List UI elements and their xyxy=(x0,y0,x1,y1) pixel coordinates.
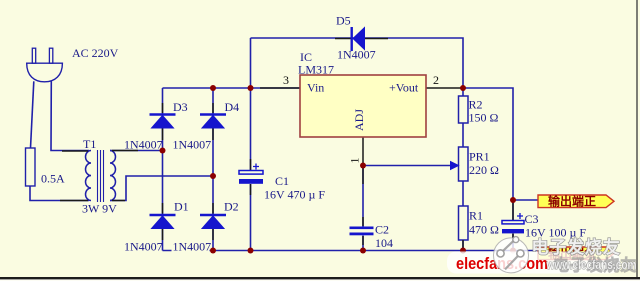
svg-text:T1: T1 xyxy=(83,137,96,151)
svg-text:150 Ω: 150 Ω xyxy=(469,111,499,125)
svg-text:1N4007: 1N4007 xyxy=(124,138,163,152)
svg-text:1: 1 xyxy=(348,158,362,164)
svg-text:0.5A: 0.5A xyxy=(41,172,65,186)
svg-text:R1: R1 xyxy=(469,209,483,223)
svg-text:1N4007: 1N4007 xyxy=(173,138,212,152)
svg-text:电子发烧友: 电子发烧友 xyxy=(532,237,621,257)
svg-text:D3: D3 xyxy=(173,100,188,114)
svg-text:D1: D1 xyxy=(174,200,189,214)
svg-text:104: 104 xyxy=(375,236,393,250)
svg-text:R2: R2 xyxy=(469,98,483,112)
svg-text:1N4007: 1N4007 xyxy=(173,240,212,254)
svg-text:LM317: LM317 xyxy=(298,63,334,77)
svg-text:www.elecfans.com: www.elecfans.com xyxy=(546,257,637,272)
svg-text:1N4007: 1N4007 xyxy=(337,48,376,62)
svg-text:PR1: PR1 xyxy=(469,150,490,164)
svg-text:D4: D4 xyxy=(225,100,240,114)
svg-text:C3: C3 xyxy=(525,212,539,226)
svg-text:220 Ω: 220 Ω xyxy=(469,163,499,177)
svg-text:3: 3 xyxy=(283,73,289,87)
svg-text:2: 2 xyxy=(433,73,439,87)
svg-text:D5: D5 xyxy=(336,14,351,28)
svg-text:470 Ω: 470 Ω xyxy=(469,223,499,237)
svg-text:输出端正: 输出端正 xyxy=(548,194,596,209)
svg-text:AC 220V: AC 220V xyxy=(72,46,119,60)
svg-text:16V 470 µ F: 16V 470 µ F xyxy=(264,188,325,202)
svg-text:ADJ: ADJ xyxy=(352,109,366,131)
svg-text:+Vout: +Vout xyxy=(389,81,419,95)
svg-text:D2: D2 xyxy=(224,200,239,214)
svg-text:1N4007: 1N4007 xyxy=(124,240,163,254)
svg-text:C1: C1 xyxy=(275,174,289,188)
svg-text:3W 9V: 3W 9V xyxy=(82,202,117,216)
svg-text:C2: C2 xyxy=(375,223,389,237)
svg-text:Vin: Vin xyxy=(307,81,324,95)
